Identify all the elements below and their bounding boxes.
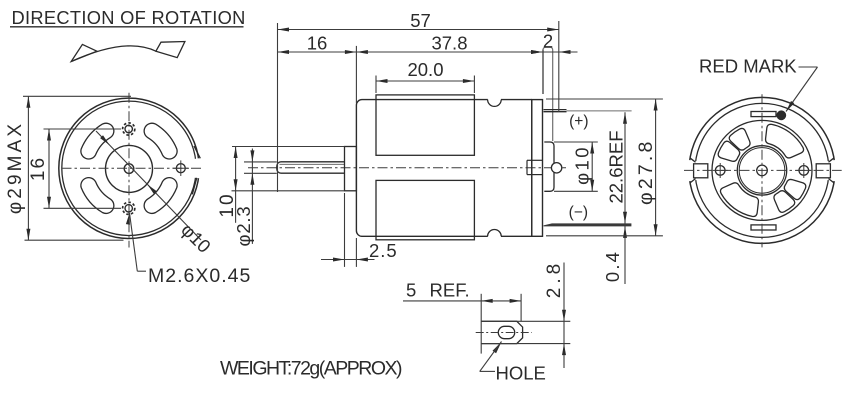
- dim 5 REF extension lines: [480, 294, 482, 354]
- side view: (+) terminal tab: [544, 109, 567, 111]
- side view: magnet section bottom: [376, 180, 474, 239]
- dim φ29MAX dimension line: [27, 96, 29, 240]
- rear view: top slot: [751, 112, 776, 117]
- dim φ27.8 dimension line: [655, 99, 657, 236]
- dim φ27.8 extension lines: [546, 98, 663, 100]
- dim 20.0 dimension line: [376, 80, 474, 82]
- svg-text:HOLE: HOLE: [496, 363, 546, 384]
- dim 2.5 extension lines: [344, 193, 346, 267]
- rear view: right pilot hole with cross: [799, 166, 809, 176]
- dim φ2.3 dimension line and outside arrows: [251, 149, 253, 244]
- side view: front bushing: [345, 147, 357, 191]
- dim 2 dimension line and outside arrows: [543, 51, 578, 53]
- front view: kidney slot top-right: [144, 123, 177, 159]
- dim 10 extension lines (bushing): [232, 146, 345, 148]
- front view: shaft hole: [124, 164, 134, 174]
- rear view: end cap circle: [712, 120, 812, 220]
- svg-text:0.4: 0.4: [602, 250, 623, 282]
- front view: kidney slot bottom-right: [144, 178, 177, 214]
- terminal detail: tab outline: [481, 321, 522, 343]
- dim 57 extension line right: [558, 21, 560, 112]
- rear view: shaft hole: [757, 165, 768, 176]
- rear view: left pilot hole with cross: [715, 166, 725, 176]
- front view: kidney slot top-left: [81, 123, 114, 159]
- front view: horizontal centerline: [62, 167, 202, 169]
- svg-text:22.6REF: 22.6REF: [606, 130, 627, 203]
- svg-text:5: 5: [406, 280, 416, 301]
- side view: horizontal centerline: [248, 167, 566, 169]
- svg-text:16: 16: [28, 156, 49, 181]
- front view: inner rim circle: [62, 101, 196, 235]
- rear view: vent wedge top-right (large): [766, 124, 804, 158]
- front view: screw hole top (threaded): [125, 125, 132, 132]
- front view: outer circle (body rim): [59, 98, 199, 238]
- front view: screw hole bottom (threaded): [125, 205, 132, 212]
- rear view: vertical centerline: [761, 94, 763, 247]
- rear view: vent wedge lower-right a: [784, 179, 806, 199]
- side view: motor body outline: [356, 100, 531, 237]
- rear view: horizontal centerline: [684, 169, 842, 171]
- svg-text:(+): (+): [569, 113, 588, 130]
- dim 57 extension line left (shaft tip): [277, 23, 279, 192]
- svg-text:20.0: 20.0: [407, 59, 443, 80]
- side view: end cap: [532, 100, 543, 237]
- rear view: right tab (rim break, cut ticks, lug): [823, 160, 837, 182]
- svg-text:37.8: 37.8: [431, 33, 467, 54]
- dim 16 dimension line: [48, 129, 50, 208]
- svg-text:RED MARK: RED MARK: [699, 56, 797, 77]
- svg-text:φ29MAX: φ29MAX: [5, 121, 26, 214]
- dim φ2.3 extension lines: [244, 161, 277, 163]
- svg-text:2.8: 2.8: [544, 260, 565, 298]
- dim φ10 (rear boss) dimension line: [591, 142, 593, 191]
- svg-text:(−): (−): [569, 204, 588, 221]
- dim 57 dimension line: [278, 29, 559, 31]
- front view: center boss circle: [106, 145, 153, 192]
- side view: shaft: [277, 162, 345, 173]
- svg-text:2: 2: [543, 31, 553, 52]
- front view: side pilot hole with cross: [176, 164, 185, 173]
- dim 16 dimension line (shaft length): [278, 51, 357, 53]
- front view: vertical centerline: [128, 93, 130, 248]
- dim φ10 (boss) leader line: [96, 131, 201, 240]
- side view: rear bearing boss: [544, 142, 554, 191]
- svg-text:2.5: 2.5: [369, 240, 398, 261]
- rear view: inner rim circle: [695, 103, 829, 237]
- svg-text:DIRECTION OF ROTATION: DIRECTION OF ROTATION: [12, 7, 246, 28]
- side view: bearing pocket: [526, 160, 528, 174]
- dim 2.8 dimension line and outside arrows: [563, 263, 565, 369]
- side view: terminal plate edge-on: [542, 49, 544, 94]
- side view: (-) terminal tab: [544, 223, 632, 226]
- front view: kidney slot bottom-left: [81, 178, 114, 214]
- rear view: vent wedge bottom-left (large): [720, 183, 758, 217]
- dim 10 dimension line: [235, 147, 237, 223]
- dim 2.5 dimension line and outside arrows: [321, 259, 375, 261]
- rear view: center boss circle: [737, 146, 786, 195]
- svg-text:57: 57: [410, 10, 431, 31]
- dim 16 extension lines: [44, 128, 122, 130]
- dim φ29MAX extension lines: [23, 95, 131, 97]
- svg-text:M2.6X0.45: M2.6X0.45: [148, 265, 251, 287]
- svg-text:WEIGHT:72g(APPROX): WEIGHT:72g(APPROX): [220, 357, 402, 379]
- rotation arrow: open tail quad (right): [156, 42, 185, 58]
- svg-text:φ10: φ10: [177, 219, 215, 257]
- dim 22.6REF dimension line: [624, 112, 626, 284]
- svg-text:φ27.8: φ27.8: [635, 138, 657, 205]
- leader M2.6X0.45: [126, 213, 130, 225]
- rear view: bottom slot: [751, 225, 776, 230]
- svg-text:16: 16: [307, 33, 328, 54]
- dim 20.0 extension lines: [375, 76, 377, 94]
- rotation arrow: open arrowhead (left): [71, 44, 97, 61]
- dim φ10 (rear boss) extension lines: [554, 141, 598, 143]
- side view: magnet section top: [376, 95, 474, 155]
- side view: shaft end cap circle: [551, 163, 561, 173]
- svg-text:REF.: REF.: [430, 280, 470, 301]
- side view: bottom vent notch: [488, 235, 501, 238]
- svg-text:φ2.3: φ2.3: [233, 206, 254, 247]
- rear view: red mark dot: [777, 111, 786, 120]
- terminal detail: oval hole: [498, 326, 514, 338]
- rotation arrow: curved arc: [71, 46, 156, 62]
- dim φ10 arrows: [100, 135, 109, 145]
- leader HOLE: [493, 342, 502, 354]
- rear view: outer circle: [689, 97, 835, 243]
- dim 37.8 dimension line: [356, 51, 542, 53]
- front view: right rim break with cut ticks: [192, 158, 202, 179]
- rear view: vent wedge upper-left a: [718, 141, 740, 161]
- dim 0.4 arrow: [623, 226, 627, 238]
- svg-text:φ10: φ10: [572, 145, 593, 185]
- rear view: vent wedge lower-right b: [774, 191, 795, 213]
- dim 16/37.8 extension line (body face): [355, 46, 357, 103]
- rear view: vent wedge upper-left b: [729, 128, 750, 150]
- side view: top vent notch: [488, 98, 501, 101]
- dim 5 REF dimension line: [403, 300, 521, 302]
- terminal detail: hole centerline: [476, 332, 532, 334]
- rear view: left tab (rim break, cut ticks, lug): [687, 160, 701, 182]
- leader RED MARK: [799, 66, 818, 68]
